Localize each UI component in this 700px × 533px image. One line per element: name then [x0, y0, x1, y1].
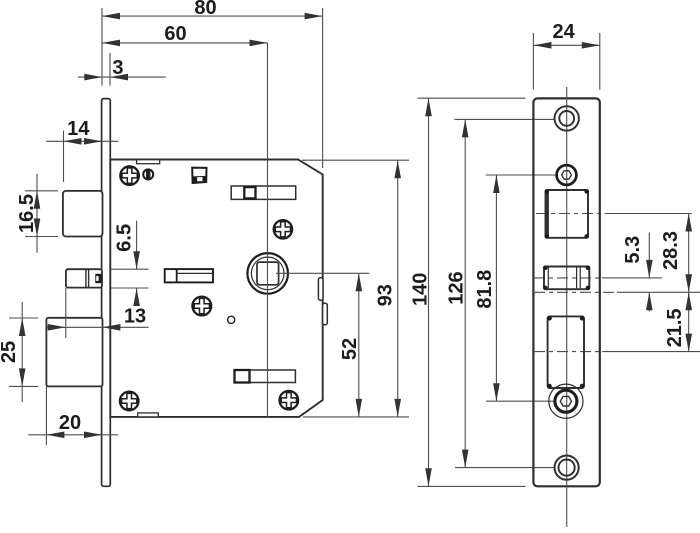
ext line top screw center	[454, 118, 554, 120]
arrow 140 bottom	[425, 468, 432, 486]
hub horizontal centerline	[276, 272, 369, 274]
spindle square hole	[257, 262, 279, 285]
right edge inner tab	[318, 278, 323, 301]
ext line deadbolt front	[45, 386, 47, 445]
hub vertical centerline	[267, 43, 269, 417]
arrow 24 left	[533, 42, 551, 49]
tick 16.5 top	[25, 190, 58, 192]
svg-text:6.5: 6.5	[114, 224, 136, 252]
svg-text:126: 126	[446, 271, 468, 304]
faceplate (front view)	[533, 98, 599, 486]
arrow 28.3 top	[685, 214, 692, 232]
deadbolt	[46, 318, 102, 387]
small circle	[228, 316, 235, 323]
tick 25 bottom	[9, 385, 38, 387]
arrow 24 right	[582, 42, 600, 49]
lower hex screw outer thin circle	[549, 384, 583, 418]
svg-text:13: 13	[124, 305, 146, 327]
arrow 28.3 bottom	[685, 274, 692, 292]
screw right	[274, 220, 292, 238]
auxiliary slider bolt	[66, 269, 102, 287]
svg-text:5.3: 5.3	[622, 236, 644, 264]
ext line lower hex screw center	[486, 400, 555, 402]
middle bar	[165, 269, 213, 282]
top edge tab	[137, 160, 160, 164]
spindle hub outer circle	[247, 253, 288, 294]
hex set screw	[557, 165, 577, 185]
square cutout (handle hub)	[545, 189, 590, 239]
arrow 5.3 bottom (points up)	[646, 292, 653, 310]
svg-text:81.8: 81.8	[474, 270, 496, 309]
arrow 13 left (outside, points right)	[48, 324, 66, 331]
svg-text:25: 25	[0, 341, 20, 363]
arrow 6.5 top (outside, points down)	[133, 251, 140, 269]
arrow 126 top	[462, 119, 469, 137]
screw top-left	[120, 166, 139, 185]
ext line plate-left upper	[101, 8, 103, 86]
dim line 6.5 lower	[136, 288, 138, 302]
arrow 81.8 bottom	[493, 383, 500, 401]
vertical centerline	[566, 87, 568, 527]
ext line latch front	[63, 131, 65, 183]
ext line slider front	[65, 288, 67, 338]
dim line 20	[28, 434, 118, 436]
arrow 21.5 bottom	[685, 334, 692, 352]
dim line 16.5	[36, 174, 38, 253]
ext line plate bottom (right view)	[418, 485, 526, 487]
svg-text:80: 80	[194, 0, 216, 19]
centerline lower cutout (dash-dot)	[534, 351, 600, 353]
dim line 93	[397, 160, 399, 417]
dim line 24	[533, 44, 599, 46]
svg-text:52: 52	[339, 338, 361, 360]
arrow 14 right	[84, 138, 102, 145]
slider black end cap	[95, 274, 101, 283]
arrow 25 bottom	[19, 368, 26, 386]
screw center	[192, 297, 211, 316]
dim line 140	[428, 98, 430, 486]
arrow 140 top	[425, 98, 432, 116]
ext line hub center right	[605, 213, 692, 215]
arrow 25 top	[19, 318, 26, 336]
arrow 21.5 top	[685, 292, 692, 310]
centerline square cutout (dash-dot)	[536, 213, 599, 215]
centerline middle cutout (dash-dot)	[534, 277, 600, 279]
dim line 28.3 / 21.5	[688, 214, 690, 352]
arrow 3 right (outside, points left)	[110, 74, 128, 81]
screw bottom-right	[280, 391, 299, 410]
middle bar divider	[176, 269, 178, 282]
bottom screw hole outer	[555, 456, 579, 480]
arrow 126 bottom	[462, 450, 469, 468]
top screw hole inner	[559, 111, 574, 126]
arrowheads (left+middle dims)	[19, 13, 500, 487]
tick 16.5 bottom	[25, 236, 58, 238]
arrow 20 right	[84, 432, 102, 439]
tick 25 top	[9, 317, 38, 319]
svg-text:24: 24	[552, 21, 575, 43]
lower bar	[235, 370, 296, 383]
arrow 60 left	[102, 40, 120, 47]
ext line body top right	[302, 159, 409, 161]
ext line body-right upper	[322, 8, 324, 168]
arrow 93 top	[394, 160, 401, 178]
spindle hub inner circle	[251, 257, 284, 290]
ext line body bottom right	[303, 416, 409, 418]
dim line 80	[102, 15, 323, 17]
bottom edge tab	[138, 413, 159, 417]
arrow 60 right	[250, 40, 268, 47]
dim line 126	[464, 119, 466, 467]
ext line middle cutout right	[602, 277, 662, 279]
ext line 24 left	[532, 33, 534, 90]
upper bar bold square	[244, 187, 255, 198]
dim line 6.5 upper	[136, 221, 138, 270]
arrow 20 left	[46, 432, 64, 439]
svg-text:20: 20	[59, 412, 81, 434]
svg-text:93: 93	[375, 284, 397, 306]
arrow 6.5 bottom (outside, points up)	[133, 288, 140, 306]
svg-text:21.5: 21.5	[664, 308, 686, 347]
bottom screw hole inner	[559, 460, 575, 476]
arrow 13 right (outside, points left)	[102, 324, 120, 331]
lower hex screw hexagon	[560, 396, 571, 406]
svg-text:3: 3	[112, 57, 123, 79]
top screw hole outer	[555, 106, 579, 130]
ext line plate middle right	[617, 291, 700, 293]
upper bar	[231, 186, 296, 199]
stop flag	[192, 168, 206, 183]
dim line 25	[21, 302, 23, 402]
arrow 5.3 top (points down)	[646, 260, 653, 278]
ext line plate-right upper	[109, 53, 111, 86]
lower cutout (deadbolt slot)	[547, 316, 584, 388]
dim line 60	[102, 42, 268, 44]
faceplate (side view)	[102, 99, 111, 487]
dim line 14	[46, 140, 118, 142]
arrow 80 right	[305, 13, 323, 20]
arrow 81.8 top	[493, 175, 500, 193]
svg-text:140: 140	[410, 273, 432, 306]
arrow 16.5 top	[34, 191, 41, 209]
right edge outer tab	[323, 303, 328, 325]
slotted disc	[143, 169, 153, 179]
ext line bottom screw center	[455, 467, 556, 469]
svg-text:14: 14	[67, 118, 90, 140]
arrow 93 bottom	[394, 399, 401, 417]
middle cutout (aux bolt slot)	[543, 266, 590, 291]
lower bar bold square	[235, 370, 250, 383]
ext line slider top	[111, 268, 149, 270]
slider divider lines	[85, 269, 87, 287]
arrow 52 top	[356, 273, 363, 291]
centerline plate middle (dash-dot)	[534, 291, 614, 293]
ext line plate top (right view)	[418, 97, 526, 99]
arrow 52 bottom	[356, 399, 363, 417]
arrow 80 left	[102, 13, 120, 20]
ext line hex screw center	[486, 174, 557, 176]
dim line 81.8	[495, 175, 497, 401]
lock case body outline	[110, 160, 322, 417]
arrow 3 left (outside, points right)	[84, 74, 102, 81]
svg-text:60: 60	[164, 23, 186, 45]
dim line 5.3 lower	[648, 292, 650, 311]
middle bar inner line	[178, 272, 212, 274]
dim line 13	[47, 326, 148, 328]
svg-text:28.3: 28.3	[660, 231, 682, 270]
screw bottom-left	[120, 392, 139, 411]
latch bolt	[63, 191, 103, 237]
arrow 14 left	[64, 138, 82, 145]
ext line lower cutout right	[602, 351, 700, 353]
dim line 5.3 upper	[648, 233, 650, 278]
arrow 16.5 bottom	[34, 219, 41, 237]
lower hex screw bold ring	[555, 390, 577, 412]
dim line 52	[358, 273, 360, 417]
svg-text:16.5: 16.5	[16, 194, 38, 233]
ext line 24 right	[599, 33, 601, 90]
ext line slider bottom	[111, 287, 149, 289]
dim line 3	[78, 76, 166, 78]
